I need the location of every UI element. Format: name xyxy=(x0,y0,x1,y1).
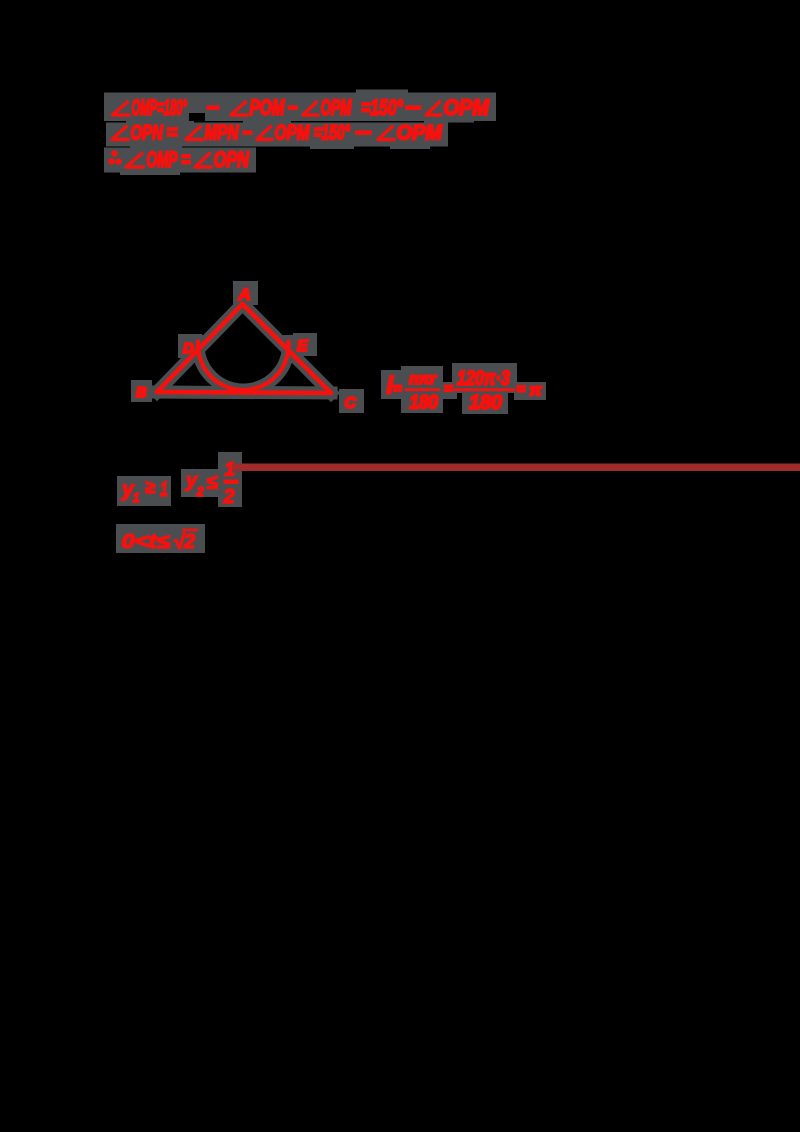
svg-text:C: C xyxy=(345,395,357,412)
triangle side AB xyxy=(157,304,243,392)
svg-text:−: − xyxy=(405,95,421,120)
halo triangle side AB xyxy=(157,304,243,392)
svg-text:2: 2 xyxy=(183,531,195,553)
svg-text:−: − xyxy=(288,95,298,120)
arc length formula: l = n pi r / 180 = 120 pi 3 / 180 = pi xyxy=(387,367,543,414)
svg-text:120π·3: 120π·3 xyxy=(457,367,510,390)
svg-text:=150°: =150° xyxy=(361,95,403,120)
svg-text:−: − xyxy=(206,95,219,120)
svg-text:=: = xyxy=(444,381,453,398)
halo label A xyxy=(233,281,258,305)
triangle side AC xyxy=(243,304,332,393)
svg-text:POM: POM xyxy=(250,95,285,120)
halo label E xyxy=(293,333,317,356)
svg-text:nπr: nπr xyxy=(409,371,437,388)
halo 0 lt t le sqrt2 xyxy=(116,524,205,553)
svg-text:OPN: OPN xyxy=(131,122,164,145)
svg-text:OMP: OMP xyxy=(147,147,178,172)
halo one half fraction xyxy=(218,452,242,507)
svg-text:=: = xyxy=(167,122,178,145)
halo formula l equals xyxy=(381,370,404,399)
halo label B xyxy=(131,380,152,402)
svg-text:OPM: OPM xyxy=(444,95,490,120)
svg-text:MPN: MPN xyxy=(205,122,240,145)
svg-text:180: 180 xyxy=(410,393,439,414)
svg-text:E: E xyxy=(297,338,309,355)
halo label D xyxy=(178,334,202,358)
halo fraction 2 denominator xyxy=(462,393,508,414)
svg-text:OPM: OPM xyxy=(275,122,310,145)
svg-text:2: 2 xyxy=(196,484,205,499)
inequality y1 >= 1 xyxy=(121,477,168,505)
svg-text:OPM: OPM xyxy=(321,95,352,120)
svg-text:A: A xyxy=(238,285,251,304)
svg-text:≤: ≤ xyxy=(207,472,218,494)
svg-text:180: 180 xyxy=(469,392,502,414)
svg-text:1: 1 xyxy=(133,490,140,505)
svg-text:≥: ≥ xyxy=(145,477,155,497)
svg-text:0<t≤: 0<t≤ xyxy=(122,531,170,553)
svg-text:−: − xyxy=(355,122,372,145)
halo text line 2 xyxy=(106,123,448,147)
svg-text:1: 1 xyxy=(160,478,168,501)
svg-text:B: B xyxy=(136,384,147,401)
svg-text:=: = xyxy=(517,381,526,398)
math line 3: therefore angle OMP = angle OPN xyxy=(109,147,250,172)
halo triangle base BC xyxy=(157,392,331,393)
triangle base BC xyxy=(157,392,331,393)
inequality y2 <= 1/2 xyxy=(185,460,239,509)
svg-text:=150°: =150° xyxy=(314,122,351,145)
halo fraction 2 numerator xyxy=(452,363,517,393)
svg-text:=: = xyxy=(393,381,402,398)
halo y2 le xyxy=(181,469,222,497)
svg-text:2: 2 xyxy=(223,486,235,508)
halo triangle side AC xyxy=(243,304,332,393)
math line 1: angle OMP = 180 deg minus angle POM minus angle OPM = 150 deg minus angle OPM xyxy=(113,95,490,120)
svg-text:OPM: OPM xyxy=(397,122,443,145)
svg-text:=: = xyxy=(181,147,191,172)
inequality 0 < t <= sqrt 2 xyxy=(122,529,199,554)
long dark red horizontal line xyxy=(232,464,800,472)
math line 2: angle OPN = angle MPN minus angle OPM = 150 deg minus angle OPM xyxy=(112,122,442,145)
svg-text:−: − xyxy=(242,122,252,145)
svg-text:OPN: OPN xyxy=(214,147,250,172)
halo equals pi xyxy=(514,382,546,400)
svg-text:π: π xyxy=(530,381,543,400)
halo tangent arc xyxy=(198,341,289,390)
halo label C xyxy=(339,389,364,413)
halo text line 1 xyxy=(104,93,496,122)
halo y1 ge 1 xyxy=(117,476,171,506)
tangent arc through D and E xyxy=(198,341,289,390)
halo equals sign 2 xyxy=(441,382,457,399)
halo text line 3 xyxy=(104,148,256,173)
svg-text:OMP=180°: OMP=180° xyxy=(132,95,188,120)
halo fraction 1 xyxy=(401,366,443,413)
